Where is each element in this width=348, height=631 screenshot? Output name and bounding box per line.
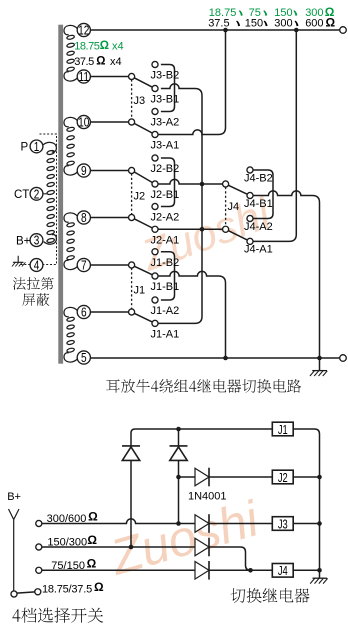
pivot J1 lower common <box>129 309 135 315</box>
contact J4-B1 <box>247 192 253 198</box>
svg-text:J4-B2: J4-B2 <box>244 172 273 184</box>
svg-text:1N4001: 1N4001 <box>188 491 227 503</box>
terminal 7 <box>77 258 90 271</box>
svg-text:37.5: 37.5 <box>208 18 229 30</box>
diode D5 (pointing right) <box>195 561 209 580</box>
row contact 150/300 <box>36 544 42 550</box>
selector wiper arm <box>17 592 35 593</box>
wire terminal 7 to J1 upper common <box>90 264 128 266</box>
wire J2-B2 to J2-A2 <box>161 158 175 207</box>
svg-text:P: P <box>21 142 29 154</box>
svg-text:J4-A1: J4-A1 <box>244 244 273 256</box>
junction node top-J4A1 <box>294 28 299 33</box>
terminal 4 (primary) <box>30 259 43 272</box>
wire bottom output (terminal 5 to output terminal) <box>90 357 339 359</box>
label Faraday shield line2 屏蔽 <box>22 293 49 306</box>
secondary winding 12-11 <box>64 25 77 81</box>
svg-text:18.75/37.5: 18.75/37.5 <box>42 583 92 595</box>
pivot J2 lower common <box>129 214 135 220</box>
relay coil J1 <box>272 422 293 436</box>
diode D2 (pointing up) <box>170 446 188 461</box>
svg-text:10: 10 <box>78 116 90 130</box>
svg-text:J2-B1: J2-B1 <box>151 189 180 201</box>
pivot J4 lower common <box>223 226 229 232</box>
junction node bus J2 <box>317 475 322 480</box>
svg-text:75/150: 75/150 <box>51 560 85 572</box>
junction node row3-J4 feed <box>248 568 253 573</box>
wire terminal 11 to J3 upper common <box>90 76 128 78</box>
contact J1-A2 <box>152 297 158 303</box>
row contact 18.75/37.5 <box>35 589 41 595</box>
Faraday shield dashed line <box>40 134 57 265</box>
output terminal top right <box>340 27 347 34</box>
svg-text:3: 3 <box>34 235 40 248</box>
caption 耳放牛4绕组4继电器切换电路 <box>106 379 301 393</box>
wire D4 cathode down to J4 row <box>209 547 251 570</box>
wire node to D6 anode (J2 feed) <box>179 476 196 478</box>
pivot J1 upper common <box>129 262 135 268</box>
J2 upper switch arm <box>134 172 152 183</box>
terminal 5 <box>77 351 90 364</box>
junction node bottom-J4B1/ground <box>317 356 322 361</box>
svg-text:5: 5 <box>81 351 87 365</box>
contact J1-B2 <box>152 249 158 255</box>
ground (Faraday shield) <box>12 256 26 267</box>
wire D3 cathode to relay coil J3 <box>209 523 273 525</box>
wire J4-B1 down to bottom output <box>253 191 320 358</box>
selector wiper <box>11 591 17 597</box>
contact J3-B2 <box>152 61 158 67</box>
secondary winding 10-9 <box>64 117 77 175</box>
J1 lower switch arm <box>134 313 152 322</box>
terminal 2 (primary) <box>30 187 43 200</box>
svg-text:J1: J1 <box>278 423 288 437</box>
svg-text:J3: J3 <box>134 95 146 107</box>
svg-text:J2: J2 <box>134 191 146 203</box>
svg-text:1: 1 <box>34 141 40 154</box>
wire J2-A1 to J4 lower common <box>158 228 223 230</box>
svg-text:J3-A2: J3-A2 <box>151 117 180 129</box>
svg-text:J1-A2: J1-A2 <box>151 305 180 317</box>
wire D5 cathode to relay coil J4 <box>209 569 273 571</box>
svg-text:J1: J1 <box>134 285 146 297</box>
contact J2-A2 <box>152 203 158 209</box>
svg-text:Ω: Ω <box>94 580 104 594</box>
svg-text:J1-B2: J1-B2 <box>151 257 180 269</box>
transformer core <box>58 25 63 364</box>
svg-text:J3-A1: J3-A1 <box>151 140 180 152</box>
junction node D2-J2 feed <box>176 475 181 480</box>
relay J4 actuator dashed link <box>225 187 227 227</box>
diode D3 (pointing right) <box>195 514 209 533</box>
svg-text:J4: J4 <box>228 201 240 213</box>
wire J3-A1 up to top output <box>158 30 226 135</box>
svg-text:Ω: Ω <box>326 15 336 29</box>
relay coil J3 <box>272 517 293 531</box>
wire terminal 8 to J2 lower common <box>90 217 128 219</box>
pivot J3 lower common <box>129 119 135 125</box>
wire mid branch top to D2 <box>178 429 180 446</box>
wire row 150/300 to D4 anode <box>42 546 195 548</box>
svg-text:6: 6 <box>81 306 87 320</box>
terminal 9 <box>77 164 90 177</box>
svg-text:150/300: 150/300 <box>47 536 87 548</box>
contact J4-B2 <box>247 167 253 173</box>
relay coil J2 <box>272 470 293 484</box>
svg-text:4: 4 <box>34 260 40 273</box>
svg-text:CT: CT <box>14 189 29 201</box>
J3 upper switch arm <box>134 78 152 87</box>
contact J2-B1 <box>152 181 158 187</box>
junction node row1-mid <box>176 521 181 526</box>
terminal 1 (primary) <box>30 140 43 153</box>
row contact 300/600 <box>36 520 42 526</box>
svg-text:18.75: 18.75 <box>74 41 99 53</box>
svg-text:J2-B2: J2-B2 <box>151 163 180 175</box>
svg-text:Ω: Ω <box>87 533 97 547</box>
svg-text:600: 600 <box>305 18 323 30</box>
terminal 6 <box>77 305 90 318</box>
secondary winding 8-7 <box>64 213 77 270</box>
wire J1-B2 to J1-A2 <box>161 252 175 300</box>
terminal 8 <box>77 211 90 224</box>
contact J4-A2 <box>247 215 253 221</box>
junction node row2-left <box>129 545 134 550</box>
contact J4-A1 <box>247 238 253 244</box>
wire J3-B2 to J3-A2 <box>161 65 175 112</box>
ground (top section output) <box>310 358 327 376</box>
pivot J4 upper common <box>223 181 229 187</box>
relay J2 actuator dashed link <box>131 173 133 214</box>
svg-text:Ω: Ω <box>96 55 105 67</box>
svg-text:J2-A1: J2-A1 <box>151 235 180 247</box>
wire row 300/600 to D3 anode <box>42 519 195 524</box>
junction node top-J3A1 <box>223 28 228 33</box>
wire terminal 9 to J2 upper common <box>90 170 128 172</box>
B+ input antenna symbol <box>9 509 20 591</box>
svg-text:J3-B1: J3-B1 <box>151 94 180 106</box>
svg-text:9: 9 <box>81 164 87 178</box>
caption 切换继电器 <box>231 588 310 603</box>
wire J4-B2 to J4-A2 <box>253 170 273 219</box>
svg-text:37.5: 37.5 <box>74 56 94 68</box>
contact J2-A1 <box>152 226 158 232</box>
svg-text:150: 150 <box>245 18 263 30</box>
caption 4档选择开关 <box>12 608 103 623</box>
wire J1-B1 down to bottom output <box>158 271 226 358</box>
primary winding P-CT-B+ <box>43 142 57 244</box>
terminal 11 <box>77 70 90 83</box>
svg-text:x4: x4 <box>110 56 122 68</box>
contact J3-A2 <box>152 108 158 114</box>
svg-text:J1-A1: J1-A1 <box>151 329 180 341</box>
contact J1-B1 <box>152 273 158 279</box>
svg-text:J1-B1: J1-B1 <box>151 281 180 293</box>
secondary winding 6-5 <box>64 307 77 362</box>
svg-text:8: 8 <box>81 211 87 225</box>
svg-text:J3-B2: J3-B2 <box>151 70 180 82</box>
svg-text:11: 11 <box>79 70 90 84</box>
junction node bus-D2 top <box>176 427 181 432</box>
svg-text:300/600: 300/600 <box>47 513 87 525</box>
junction node bus J3 <box>317 521 322 526</box>
wire top output down to J4-A1 <box>253 30 296 241</box>
junction node bottom-J1B1 <box>223 356 228 361</box>
J4 upper switch arm <box>228 185 247 194</box>
pivot J3 upper common <box>129 73 135 79</box>
svg-text:2: 2 <box>34 188 40 201</box>
row contact 75/150 <box>36 567 42 573</box>
svg-text:J2-A2: J2-A2 <box>151 212 180 224</box>
wire top bus to relay coil J1 <box>131 429 273 446</box>
svg-text:12: 12 <box>78 24 89 38</box>
dotted link terminal 4 to ground <box>19 264 30 266</box>
wire row 75/150 to D5 anode <box>42 569 195 571</box>
J2 lower switch arm <box>134 219 152 228</box>
relay J1 actuator dashed link <box>131 268 133 309</box>
svg-text:J4-B1: J4-B1 <box>244 198 273 210</box>
wire D2 down to row 300/600 <box>178 460 180 523</box>
contact J1-A1 <box>152 320 158 326</box>
wire terminal 10 to J3 lower common <box>90 121 128 123</box>
contact J2-B2 <box>152 155 158 161</box>
junction node J2B1/J3B1 <box>200 182 205 187</box>
pivot J2 upper common <box>129 167 135 173</box>
svg-text:B+: B+ <box>16 236 31 248</box>
junction node J2A1 <box>200 227 205 232</box>
svg-text:Ω: Ω <box>100 40 109 52</box>
wire left branch D1 to row 150/300 <box>130 460 132 547</box>
relay coil J4 <box>272 564 293 578</box>
junction node bus J4/ground <box>317 568 322 573</box>
wire right bus relays to ground <box>293 429 319 570</box>
J1 upper switch arm <box>134 266 152 275</box>
svg-text:J4: J4 <box>278 565 288 579</box>
svg-text:B+: B+ <box>7 491 21 503</box>
terminal 3 (primary) <box>30 234 43 247</box>
svg-text:7: 7 <box>81 259 87 273</box>
diode D4 (pointing right) <box>195 538 209 557</box>
contact J3-B1 <box>152 85 158 91</box>
diode D6 (pointing right) <box>195 468 209 487</box>
contact J3-A1 <box>152 131 158 137</box>
wire top output (terminal 12 to output terminal) <box>90 29 339 31</box>
ground (relay bus) <box>310 570 327 583</box>
J4 lower switch arm <box>228 231 247 241</box>
J3 lower switch arm <box>134 123 152 133</box>
output terminal bottom right <box>340 355 347 362</box>
svg-text:J4-A2: J4-A2 <box>244 221 273 233</box>
svg-text:x4: x4 <box>112 41 124 53</box>
svg-text:J2: J2 <box>278 471 288 485</box>
wire terminal 6 to J1 lower common <box>90 311 128 313</box>
wire J2-B1 to J4 upper common <box>158 179 223 184</box>
svg-text:J3: J3 <box>278 518 288 532</box>
relay J3 actuator dashed link <box>131 79 133 119</box>
terminal 12 <box>77 23 90 36</box>
svg-text:Ω: Ω <box>87 557 97 571</box>
terminal 10 <box>77 115 90 128</box>
wire D6 cathode to relay coil J2 <box>209 476 273 478</box>
svg-text:300: 300 <box>274 18 292 30</box>
label Faraday shield line1 法拉第 <box>13 277 54 290</box>
wire J3-B1 down to J2/J4 node and J1-A1 <box>158 84 202 324</box>
diode D1 (pointing up) <box>122 446 140 461</box>
svg-text:Ω: Ω <box>88 510 98 524</box>
